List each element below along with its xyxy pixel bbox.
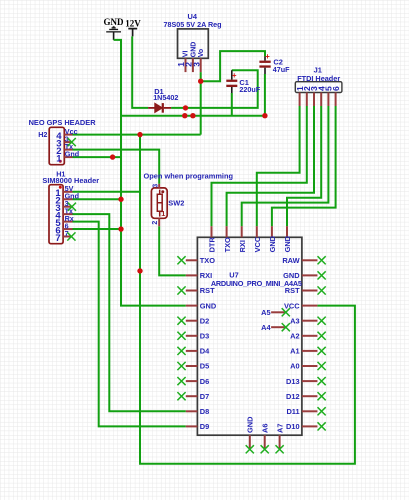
svg-text:TXO: TXO <box>223 237 232 252</box>
capacitor C1 220uF <box>226 70 237 93</box>
U7 right pin RAW stub <box>302 259 318 261</box>
svg-text:TXO: TXO <box>200 256 215 265</box>
U7 pin A4 no-connect X <box>282 323 290 331</box>
SW2 marker dot <box>161 190 164 193</box>
U7 left pin D6 stub <box>186 380 198 382</box>
junction ground bus A <box>182 113 187 118</box>
U7 right pin A0 no-connect X <box>318 362 326 370</box>
wire H1 Rx pin down to U7 D9 <box>73 222 186 427</box>
header H1 box <box>49 185 63 244</box>
H1 pin 7 no-connect X <box>67 232 75 240</box>
svg-text:+: + <box>232 71 237 80</box>
U7 left pin D2 no-connect X <box>177 317 185 325</box>
svg-text:3: 3 <box>191 62 201 67</box>
svg-text:A1: A1 <box>290 347 299 356</box>
svg-text:GND: GND <box>200 301 217 310</box>
U7 top pin DTR stub <box>211 226 213 237</box>
U7 right pin A1 stub <box>302 350 318 352</box>
svg-text:D11: D11 <box>286 407 299 416</box>
microcontroller U7 box <box>197 237 302 435</box>
voltage regulator U4 box <box>178 29 209 58</box>
junction C2/ground bus <box>262 113 267 118</box>
svg-text:GND: GND <box>283 271 300 280</box>
junction 5V rail/H2 Vcc <box>137 132 142 137</box>
wire U7 GND(top right) to J1 pin 4 <box>287 106 321 226</box>
wire H1 pin6 to GND rail <box>73 228 122 230</box>
H1 pin stub 1 <box>63 191 72 193</box>
svg-text:FTDI Header: FTDI Header <box>297 74 340 83</box>
svg-text:D10: D10 <box>286 422 300 431</box>
wire H1 Gnd pin to GND rail <box>73 198 122 200</box>
svg-text:D4: D4 <box>200 347 210 356</box>
svg-text:A3: A3 <box>290 316 299 325</box>
U7 left pin D7 stub <box>186 395 198 397</box>
svg-text:RXI: RXI <box>200 271 212 280</box>
wire U7 RXI(top) to J1 pin 5 <box>242 106 329 226</box>
U7 left pin D4 stub <box>186 350 198 352</box>
junction D1/U4-VI <box>183 105 188 110</box>
U7 left pin D3 no-connect X <box>177 332 185 340</box>
svg-text:D6: D6 <box>200 377 209 386</box>
U7 left pin RXI stub <box>186 274 198 276</box>
U7 left pin TXO no-connect X <box>177 256 185 264</box>
U7 right pin VCC stub <box>302 305 318 307</box>
U7 right pin D12 no-connect X <box>318 392 326 400</box>
svg-text:D13: D13 <box>286 377 300 386</box>
U7 right pin D13 stub <box>302 380 318 382</box>
U7 right pin A3 no-connect X <box>318 317 326 325</box>
svg-text:VCC: VCC <box>284 301 300 310</box>
U7 bottom pin GND no-connect X <box>246 445 254 453</box>
svg-text:RAW: RAW <box>282 256 299 265</box>
supply symbol 12V <box>128 29 137 37</box>
H1 pin stub 5 <box>63 221 72 223</box>
U7 right pin D11 stub <box>302 410 318 412</box>
H1 pin stub 6 <box>63 228 72 230</box>
svg-text:D9: D9 <box>200 422 209 431</box>
SW2 top pin stub <box>158 184 160 188</box>
U7 right pin RST no-connect X <box>318 286 326 294</box>
capacitor C2 47uF <box>259 56 270 74</box>
wire C1 bottom lead to ground bus <box>231 93 233 116</box>
U4 pin 2 GND stub <box>192 58 194 72</box>
svg-text:GND: GND <box>283 235 292 252</box>
svg-text:D8: D8 <box>200 407 209 416</box>
svg-text:78S05 5V 2A Reg: 78S05 5V 2A Reg <box>164 20 222 29</box>
U7 bottom pin A6 no-connect X <box>261 445 269 453</box>
U4 pin 1 VI stub <box>185 58 187 72</box>
wire H1 5V pin to 5V rail <box>73 191 141 193</box>
svg-text:NEO GPS HEADER: NEO GPS HEADER <box>29 118 97 127</box>
wire 5V rail down left-centre, along bottom, up to U7 VCC <box>140 135 355 464</box>
U7 right pin RAW no-connect X <box>318 256 326 264</box>
U7 top pin GND stub <box>286 226 288 237</box>
junction 5V rail mid <box>137 268 142 273</box>
svg-text:VCC: VCC <box>253 236 262 252</box>
svg-text:A2: A2 <box>290 332 299 341</box>
U7 left pin TXO stub <box>186 259 198 261</box>
H1 pin stub 4 <box>63 213 72 215</box>
junction U4-VO/C2 branch <box>198 79 203 84</box>
J1 pin 1 stub <box>299 93 301 107</box>
svg-text:7: 7 <box>55 233 60 244</box>
svg-text:A7: A7 <box>275 424 284 433</box>
H1 pin1 marker dot <box>59 186 62 189</box>
svg-text:D3: D3 <box>200 332 209 341</box>
svg-text:Gnd: Gnd <box>65 149 79 158</box>
wire U7 DTR to J1 pin 2 <box>212 106 307 226</box>
U7 left pin D7 no-connect X <box>177 392 185 400</box>
U7 bottom pin GND stub <box>249 435 251 448</box>
J1 pin 6 stub <box>335 93 337 107</box>
svg-text:6: 6 <box>331 86 341 91</box>
ground symbol GND (top left) <box>106 26 121 32</box>
H1 pin 3 no-connect X <box>68 203 76 211</box>
svg-text:GND: GND <box>104 17 125 27</box>
SW2 actuator symbol <box>157 190 162 217</box>
H2 pin stub 4 <box>64 134 72 136</box>
H2 pin stub 2 <box>64 149 72 151</box>
U4 pin 3 VO stub <box>200 58 202 72</box>
svg-text:GND: GND <box>268 235 277 252</box>
U7 left pin RST stub <box>186 290 198 292</box>
U7 left pin D5 stub <box>186 365 198 367</box>
svg-text:A6: A6 <box>260 424 269 433</box>
switch SW2 body <box>151 188 167 218</box>
U7 right pin A0 stub <box>302 365 318 367</box>
U7 pin A5 stub <box>271 311 285 313</box>
U7 bottom pin A7 stub <box>279 435 281 448</box>
svg-text:12V: 12V <box>125 18 141 28</box>
svg-text:A4: A4 <box>261 323 271 332</box>
svg-text:D2: D2 <box>200 316 209 325</box>
U7 left pin D5 no-connect X <box>177 362 185 370</box>
wire U4 VO output down to 5V rail junction <box>200 72 202 135</box>
U7 left pin D4 no-connect X <box>177 347 185 355</box>
wire U7 GND(top) to J1 pin 6 <box>272 106 336 226</box>
wire H2 Tx pin to switch SW2 top <box>73 150 160 184</box>
svg-text:Open when programming: Open when programming <box>144 172 234 181</box>
J1 pin 3 stub <box>313 93 315 107</box>
svg-text:DTR: DTR <box>208 237 217 253</box>
svg-text:D12: D12 <box>286 392 300 401</box>
U7 left pin D9 stub <box>186 425 198 427</box>
svg-text:3: 3 <box>153 184 160 188</box>
svg-text:RST: RST <box>285 286 300 295</box>
wire 12V feed down to diode D1 anode <box>132 36 148 108</box>
wire H2 Vcc line to 5V vertical <box>73 134 201 136</box>
wire U7 VCC(top) to J1 pin 1 <box>257 106 300 226</box>
SW2 bottom pin stub <box>158 218 160 226</box>
svg-text:SW2: SW2 <box>168 198 184 207</box>
diode D1 1N5402 <box>148 103 171 113</box>
junction H1 Gnd/GND rail <box>118 197 123 202</box>
svg-text:1: 1 <box>56 153 62 164</box>
U7 right pin RST stub <box>302 290 318 292</box>
U7 right pin D12 stub <box>302 395 318 397</box>
svg-text:Vo: Vo <box>198 49 205 57</box>
svg-text:GND: GND <box>190 42 197 58</box>
H2 pin 3 no-connect X <box>68 138 76 146</box>
H2 pin stub 3 <box>64 141 72 143</box>
junction H1 pin6/GND rail <box>118 226 123 231</box>
junction U4-GND/ground bus <box>190 113 195 118</box>
U7 top pin GND stub <box>271 226 273 237</box>
svg-text:47uF: 47uF <box>273 65 290 74</box>
svg-text:1: 1 <box>161 209 165 218</box>
svg-text:D5: D5 <box>200 362 209 371</box>
junction H2 Gnd <box>110 154 115 159</box>
svg-text:220uF: 220uF <box>239 85 260 94</box>
svg-text:RST: RST <box>200 286 215 295</box>
J1 pin 5 stub <box>327 93 329 107</box>
wire D1 cathode to U4 VI and up to C1 top plate <box>171 70 258 108</box>
H1 pin stub 2 <box>63 198 72 200</box>
svg-text:D7: D7 <box>200 392 209 401</box>
svg-text:H2: H2 <box>38 130 47 139</box>
U7 bottom pin A6 stub <box>264 435 266 448</box>
wire SW2 bottom to U7 RXI <box>159 226 186 275</box>
J1 pin 2 stub <box>306 93 308 107</box>
U7 left pin D8 stub <box>186 410 198 412</box>
U7 right pin D11 no-connect X <box>318 407 326 415</box>
U7 right pin D13 no-connect X <box>318 377 326 385</box>
wire ground bus under U4 (GND pin, C1, C2 bottoms) <box>121 115 265 117</box>
svg-text:A5: A5 <box>261 308 270 317</box>
wire U4 VO junction right and up to C2 top <box>201 51 265 81</box>
U7 top pin TXO stub <box>226 226 228 237</box>
wire U7 TXO(top) to J1 pin 3 <box>227 106 314 226</box>
svg-text:A0: A0 <box>290 362 299 371</box>
svg-text:RXI: RXI <box>238 240 247 252</box>
H2 pin1 marker dot <box>59 160 62 163</box>
wire H1 Tx pin down to U7 D8 <box>73 214 186 411</box>
U7 left pin D6 no-connect X <box>177 377 185 385</box>
U7 right pin GND no-connect X <box>318 271 326 279</box>
U7 right pin A2 no-connect X <box>318 332 326 340</box>
wire C2 bottom lead down to ground bus <box>264 74 266 116</box>
header H2 box <box>49 127 64 164</box>
U7 bottom pin A7 no-connect X <box>276 445 284 453</box>
wire GND rail: ground symbol down left side to U7 GND pin <box>114 40 186 306</box>
U7 left pin D2 stub <box>186 320 198 322</box>
U7 top pin VCC stub <box>256 226 258 237</box>
H1 pin stub 3 <box>63 206 72 208</box>
U7 right pin A1 no-connect X <box>318 347 326 355</box>
U7 right pin D10 no-connect X <box>318 422 326 430</box>
J1 pin 4 stub <box>320 93 322 107</box>
svg-text:GND: GND <box>246 416 255 433</box>
H2 pin stub 1 <box>64 156 72 158</box>
svg-text:+: + <box>265 52 270 61</box>
U7 right pin A3 stub <box>302 320 318 322</box>
U7 top pin RXI stub <box>241 226 243 237</box>
svg-text:1N5402: 1N5402 <box>153 93 178 102</box>
U7 left pin RST no-connect X <box>177 286 185 294</box>
U7 left pin GND stub <box>186 305 198 307</box>
U7 left pin D3 stub <box>186 335 198 337</box>
U7 pin A5 no-connect X <box>282 308 290 316</box>
U7 right pin A2 stub <box>302 335 318 337</box>
H1 pin stub 7 <box>63 236 72 238</box>
connector J1 box <box>295 82 342 93</box>
wire H2 Gnd pin to GND rail <box>73 156 122 158</box>
U7 right pin GND stub <box>302 274 318 276</box>
U7 right pin D10 stub <box>302 425 318 427</box>
U7 pin A4 stub <box>271 326 285 328</box>
svg-text:2: 2 <box>152 221 159 225</box>
svg-text:VI: VI <box>183 51 190 58</box>
